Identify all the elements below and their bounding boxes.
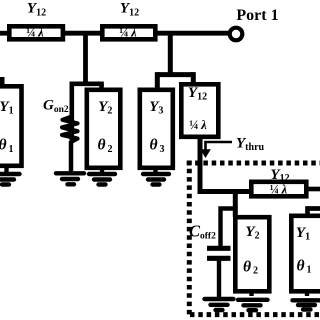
wire junction drop to shunt node: [83, 31, 88, 86]
wire stub above Y1: [0, 77, 5, 87]
stub box Y3: [140, 90, 173, 168]
ground (Y2 dashed block): [238, 291, 268, 310]
wire below TL3 into dashed block: [200, 136, 251, 192]
ground (Y1 dashed block): [293, 291, 320, 310]
stub box Y2 (dashed block): [235, 217, 269, 291]
transmission line box TL3 (vertical quarter-wave Y12): [181, 84, 218, 137]
wire drop to TL3: [191, 72, 196, 85]
wire splitter bar (Y3 / Y12 vertical): [158, 72, 193, 77]
svg-text:¼λ: ¼λ: [270, 183, 288, 197]
wire drop junction to Y2 (dashed block): [233, 192, 238, 218]
ground (G_on2): [56, 173, 84, 184]
wire junction drop to Y3/Y12 splitter: [168, 31, 173, 77]
value label G_on2: [43, 98, 69, 115]
capacitor C_off2: [207, 248, 231, 298]
wire from right edge down to Y1 (dashed block): [308, 209, 320, 218]
value label Y12 (above TL4): [270, 167, 289, 184]
ground (Y1 left): [0, 166, 20, 185]
transmission line box TL1 (quarter-wave Y12): [9, 25, 63, 39]
svg-text:¼λ: ¼λ: [119, 25, 137, 39]
ground (Y3): [143, 168, 169, 185]
ground (Y2): [89, 168, 115, 185]
stub box Y1 (left, cut off): [0, 86, 22, 166]
dashed enclosure (off-state model): [187, 161, 320, 318]
wire shunt bar (G_on2 / Y2 branch): [71, 82, 104, 87]
transmission line box TL2 (quarter-wave Y12): [102, 25, 155, 39]
svg-text:Port 1: Port 1: [236, 7, 278, 24]
value label Y12 (above TL2): [120, 1, 139, 19]
node Y_thru (arrow + label): [200, 135, 264, 158]
svg-text:¼λ: ¼λ: [189, 118, 207, 132]
wire branch to C_off2: [221, 209, 238, 248]
wire drop to G_on2: [70, 82, 75, 144]
ground (C_off2): [205, 299, 234, 310]
wire drop to Y3: [155, 72, 160, 91]
wire TL4 right to edge: [306, 187, 320, 192]
resistor G_on2: [62, 117, 78, 174]
stub box Y1 (dashed block, cut off right): [291, 216, 320, 291]
value label C_off2: [189, 222, 216, 242]
value label Y12 (above TL1): [27, 1, 46, 19]
wire between TL1 and TL2: [63, 31, 102, 36]
wire TL2 to Port 1: [155, 31, 228, 36]
wire drop to Y2 stub: [99, 84, 104, 91]
stub box Y2: [87, 90, 121, 168]
Port 1 terminal: [230, 7, 279, 41]
svg-text:¼λ: ¼λ: [26, 25, 44, 39]
wire input left at y=32: [0, 31, 12, 36]
transmission line box TL4 (quarter-wave Y12, dashed block): [251, 182, 306, 197]
